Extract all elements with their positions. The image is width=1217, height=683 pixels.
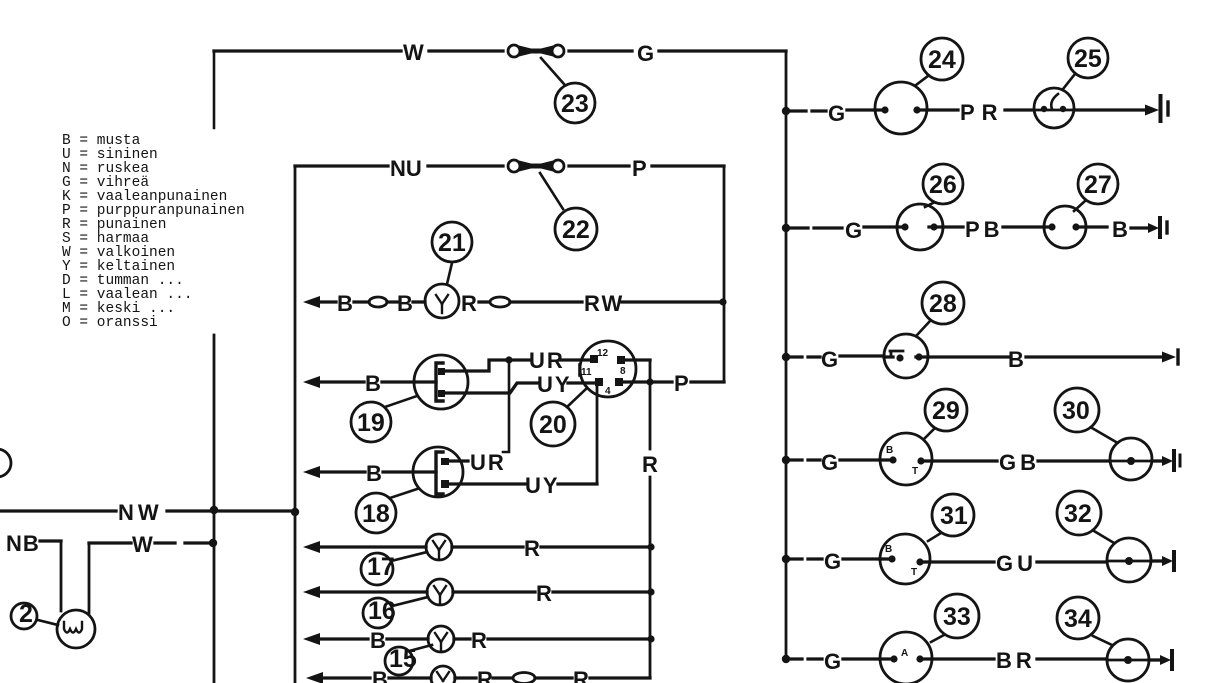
connector 32 [1107, 538, 1151, 582]
svg-text:B: B [366, 461, 382, 486]
inline connector [369, 297, 387, 307]
callout 28 [917, 321, 930, 335]
svg-text:T: T [912, 466, 918, 477]
svg-text:W: W [132, 532, 153, 557]
svg-text:30: 30 [1062, 397, 1090, 425]
svg-text:R: R [461, 291, 477, 316]
svg-text:28: 28 [929, 290, 957, 318]
svg-text:25: 25 [1074, 45, 1102, 73]
svg-text:UR: UR [529, 348, 565, 373]
svg-text:18: 18 [362, 500, 390, 528]
svg-text:R: R [536, 581, 552, 606]
row connector 26 / connector 27 : G-PB-B [782, 164, 1167, 250]
svg-text:20: 20 [539, 411, 567, 439]
callout 33 [931, 635, 944, 642]
svg-text:UR: UR [470, 450, 506, 475]
svg-text:G: G [845, 218, 862, 243]
left feed vertical [213, 335, 216, 683]
internal bar [436, 363, 443, 401]
pin 4 [615, 378, 623, 386]
svg-text:T: T [911, 567, 917, 578]
internal bar [436, 452, 443, 494]
svg-text:24: 24 [928, 46, 956, 74]
svg-text:G: G [637, 41, 654, 66]
callout 20 [567, 389, 586, 407]
svg-text:P: P [632, 156, 647, 181]
connector 28 [884, 334, 928, 378]
svg-text:29: 29 [932, 397, 960, 425]
svg-text:17: 17 [367, 553, 395, 581]
svg-text:R: R [477, 667, 493, 683]
svg-text:B: B [1112, 217, 1128, 242]
svg-text:G: G [824, 649, 841, 674]
svg-text:GU: GU [996, 551, 1037, 576]
svg-text:16: 16 [368, 597, 396, 625]
connector 30 [1110, 438, 1152, 480]
connector 33 [880, 632, 932, 683]
lead pin8 to R line [625, 358, 650, 361]
svg-text:R: R [471, 628, 487, 653]
callout 27 [1074, 201, 1085, 211]
inner box right vertical (P feed) [723, 166, 726, 381]
component 20 multi-pin connector [531, 341, 724, 678]
connector 24 [875, 82, 927, 134]
svg-text:B: B [365, 371, 381, 396]
svg-text:W: W [403, 40, 424, 65]
node left vertical stub [213, 51, 216, 128]
svg-text:B: B [397, 291, 413, 316]
row connector 31 / connector 32 : G-GU [782, 491, 1174, 584]
svg-text:GB: GB [999, 450, 1040, 475]
callout 26 [925, 203, 933, 207]
svg-text:G: G [828, 101, 845, 126]
svg-text:34: 34 [1064, 605, 1092, 633]
R vertical line [649, 360, 652, 678]
callout 23 [541, 58, 564, 84]
callout 31 [928, 533, 941, 541]
svg-text:G: G [824, 549, 841, 574]
svg-text:32: 32 [1064, 500, 1092, 528]
callout 29 [924, 429, 934, 439]
svg-text:23: 23 [561, 90, 589, 118]
row connector 24 / switch 25 : G-PR [782, 38, 1168, 134]
connector 26 [897, 204, 943, 250]
legend wire colour code table [62, 133, 245, 331]
svg-text:NU: NU [390, 156, 422, 181]
svg-text:A: A [901, 648, 908, 659]
wire W to node [89, 532, 217, 557]
svg-text:NB: NB [6, 531, 40, 556]
row bottom lamp [306, 666, 650, 683]
link down to 18 UR [503, 362, 509, 452]
wire NB [6, 531, 89, 613]
lamp 21 [413, 300, 425, 303]
lead pin down to UY of 18 [596, 386, 599, 484]
svg-text:B: B [1008, 347, 1024, 372]
wire NU-P [295, 156, 724, 683]
svg-text:2: 2 [19, 600, 33, 628]
row connector 33 / connector 34 : G-BR [782, 594, 1172, 683]
callout 24 [916, 76, 928, 85]
svg-text:G: G [821, 347, 838, 372]
junction on UR [505, 356, 512, 363]
svg-text:R: R [642, 452, 658, 477]
wire NW [0, 500, 299, 525]
lead UR [449, 459, 468, 462]
svg-text:O = oranssi: O = oranssi [62, 315, 158, 331]
connector 31 [880, 534, 930, 584]
lead UY with step [445, 383, 596, 393]
callout 18 [390, 489, 417, 498]
svg-text:11: 11 [581, 367, 592, 378]
svg-text:PB: PB [965, 217, 1004, 242]
svg-text:B: B [886, 445, 893, 456]
inner box left vertical [294, 166, 297, 683]
callout 32 [1094, 531, 1114, 543]
svg-text:UY: UY [525, 473, 560, 498]
svg-text:12: 12 [597, 348, 609, 359]
svg-text:4: 4 [605, 386, 611, 397]
row lamp 16 [303, 579, 655, 628]
right G bus vertical [785, 51, 788, 659]
row connector 28 : G-B arrow [782, 282, 1178, 378]
inline connector [479, 300, 489, 303]
svg-text:B: B [885, 544, 892, 555]
connector pair 22 [508, 160, 564, 172]
svg-text:8: 8 [620, 366, 626, 377]
svg-text:NW: NW [118, 500, 163, 525]
arrow left [318, 300, 336, 303]
row connector 29 / connector 30 : G-GB [782, 388, 1180, 485]
svg-text:R: R [573, 667, 589, 683]
callout 19 [385, 396, 417, 407]
svg-text:P: P [674, 371, 689, 396]
svg-text:B: B [370, 628, 386, 653]
switch 25 [1034, 88, 1074, 128]
svg-text:BR: BR [996, 648, 1036, 673]
callout 22 [540, 173, 563, 209]
svg-text:31: 31 [940, 502, 968, 530]
wire P from pin4 [623, 380, 724, 383]
connector 27 [1044, 206, 1086, 248]
lead UY up to comp 20 [449, 482, 597, 485]
svg-text:PR: PR [960, 100, 1005, 125]
connector pair 23 [508, 45, 564, 57]
svg-text:G: G [821, 450, 838, 475]
svg-text:RW: RW [584, 291, 624, 316]
pin 8 [617, 356, 625, 364]
svg-text:15: 15 [389, 645, 417, 673]
svg-text:21: 21 [438, 229, 466, 257]
callout 30 [1092, 428, 1116, 442]
line to harness end [1074, 108, 1148, 111]
component 18 flasher [303, 447, 597, 533]
svg-text:B: B [337, 291, 353, 316]
lead UR with step [445, 360, 593, 371]
svg-text:27: 27 [1084, 171, 1112, 199]
svg-text:33: 33 [943, 603, 971, 631]
svg-text:26: 26 [929, 171, 957, 199]
connector 29 [880, 433, 932, 485]
svg-text:19: 19 [357, 409, 385, 437]
row lamp 15 [303, 626, 655, 675]
callout 21 [447, 263, 452, 284]
row lamp 17 [303, 534, 655, 585]
svg-text:UY: UY [537, 372, 572, 397]
svg-text:B: B [372, 667, 388, 683]
svg-text:R: R [524, 536, 540, 561]
callout 34 [1093, 636, 1112, 645]
pin 12 [590, 355, 598, 363]
partial connector at left edge [0, 449, 11, 477]
wire W-G top feed [214, 40, 786, 128]
connector 34 [1107, 639, 1149, 681]
component 19 flasher [303, 348, 596, 452]
bulb 2 [11, 600, 95, 648]
row lamp 21 : B-B-R-RW [303, 222, 727, 318]
svg-text:22: 22 [562, 216, 590, 244]
callout 25 [1063, 74, 1075, 89]
